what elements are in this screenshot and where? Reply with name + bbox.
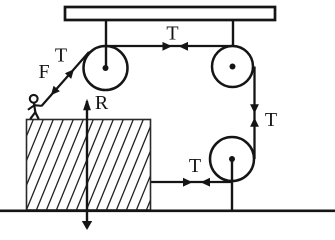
arrow R shaft <box>86 101 88 228</box>
arrowhead diagonal rope down-left <box>51 86 60 96</box>
arrowhead R down <box>82 221 92 230</box>
block hatching <box>0 119 184 211</box>
svg-text:F: F <box>38 61 49 83</box>
man legs <box>30 112 39 119</box>
arrowhead right rope up-pointing <box>250 118 259 127</box>
arrowhead top rope right-pointing <box>163 42 173 51</box>
wire right rope P2 to P3 <box>253 67 255 160</box>
pulley P3 <box>210 137 254 181</box>
man body <box>34 103 35 113</box>
svg-text:T: T <box>166 23 178 45</box>
svg-text:T: T <box>55 44 67 66</box>
support rod beam to P2 <box>232 20 234 47</box>
arrowhead bottom rope right-pointing <box>183 178 193 187</box>
arrowhead diagonal rope up-right <box>65 69 74 79</box>
block border <box>27 120 151 211</box>
axle dot P3 <box>229 156 235 162</box>
arrowhead bottom rope left-pointing <box>201 178 211 187</box>
man arms <box>28 105 42 110</box>
wire bottom rope block to P3 <box>150 181 232 183</box>
wire top rope P1 to P2 <box>106 45 233 47</box>
ceiling beam <box>65 7 275 20</box>
arrowhead right rope down-pointing <box>250 104 259 113</box>
pulley P2 <box>212 46 253 87</box>
man head <box>30 95 38 103</box>
svg-text:R: R <box>95 92 109 114</box>
svg-text:T: T <box>189 155 201 177</box>
support rod beam to P1 center <box>105 20 107 68</box>
axle dot P2 <box>230 64 236 70</box>
arrowhead R up <box>83 99 91 111</box>
support rod P3 center to ground <box>231 159 233 211</box>
svg-text:T: T <box>265 109 277 131</box>
wire diagonal rope man to P1 <box>42 52 90 106</box>
axle dot P1 <box>103 65 109 71</box>
pulley P1 <box>84 46 128 90</box>
ground line <box>0 209 335 212</box>
arrowhead top rope left-pointing <box>179 42 189 51</box>
